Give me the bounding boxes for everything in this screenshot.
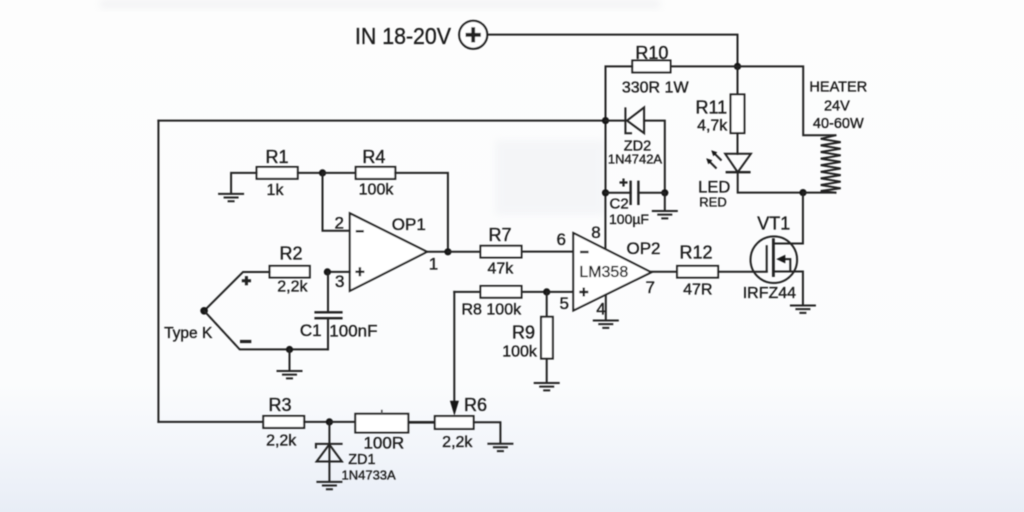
resistor R7 <box>481 246 522 258</box>
capacitor C1 <box>314 272 342 350</box>
wire R11 to LED <box>737 133 739 154</box>
zener ZD2 <box>606 107 665 192</box>
resistor R3 <box>263 416 304 428</box>
wire bottom rail to R3 <box>158 421 263 423</box>
svg-text:2,2k: 2,2k <box>442 434 473 451</box>
svg-text:100k: 100k <box>502 344 538 361</box>
wire R11 top lead <box>737 66 739 94</box>
svg-text:4,7k: 4,7k <box>697 118 728 135</box>
capacitor C2 <box>606 179 665 206</box>
svg-text:R1: R1 <box>265 147 288 167</box>
svg-text:R6: R6 <box>464 395 487 415</box>
resistor R2 <box>270 266 310 278</box>
node I <box>602 189 609 196</box>
wire R4 right feedback drop <box>395 173 448 252</box>
svg-text:47k: 47k <box>488 261 515 278</box>
wire heater branch top <box>738 66 835 135</box>
svg-text:R12: R12 <box>679 243 712 263</box>
svg-text:1k: 1k <box>267 182 285 199</box>
resistor R1 <box>257 167 298 179</box>
ground R6 <box>487 444 513 451</box>
svg-text:R7: R7 <box>488 225 511 245</box>
svg-text:2,2k: 2,2k <box>266 433 297 450</box>
R6 wiper arrowhead <box>450 401 459 416</box>
node B <box>326 418 333 425</box>
ground R1 <box>218 194 244 201</box>
wire node H to node I <box>605 121 607 193</box>
thermocouple minus <box>240 340 251 343</box>
svg-text:R2: R2 <box>279 244 302 264</box>
resistor R9 <box>541 317 553 359</box>
node H <box>602 117 609 124</box>
wire R1 left to ground <box>231 173 257 193</box>
svg-text:1N4742A: 1N4742A <box>608 152 663 167</box>
svg-text:47R: 47R <box>683 282 712 299</box>
svg-text:OP2: OP2 <box>627 239 661 258</box>
svg-text:4: 4 <box>596 300 605 319</box>
wire R1 right to node C <box>298 172 323 174</box>
node K <box>799 189 806 196</box>
node E <box>286 346 293 353</box>
svg-text:RED: RED <box>699 195 726 210</box>
wire node G down to R9 <box>546 292 548 317</box>
thermocouple plus <box>242 276 251 285</box>
svg-text:R3: R3 <box>268 395 291 415</box>
svg-text:C1: C1 <box>300 321 322 340</box>
wire pin2 from node C <box>323 173 350 231</box>
svg-text:2: 2 <box>335 213 344 232</box>
potentiometer R6 <box>435 416 474 429</box>
ground C2 <box>664 193 666 210</box>
svg-text:C2: C2 <box>610 196 629 213</box>
node D <box>324 268 331 275</box>
ground OP2 <box>593 321 619 328</box>
resistor R11 <box>731 94 745 133</box>
wire OP2 output to R12 <box>651 271 677 273</box>
node A <box>734 63 741 70</box>
ground VT1 <box>790 306 816 313</box>
svg-text:40-60W: 40-60W <box>813 116 864 132</box>
wire supply to node A <box>487 35 737 67</box>
wire R6 wiper from R8 <box>453 292 455 403</box>
ground R9 <box>534 383 560 390</box>
wire node A to R10 <box>671 65 738 67</box>
zener ZD1 <box>316 422 343 481</box>
svg-text:100R: 100R <box>363 434 404 453</box>
svg-text:LM358: LM358 <box>579 264 628 281</box>
wire 12V rail top <box>158 120 605 122</box>
wire left rail down <box>157 121 159 422</box>
wire thermocouple lower branch <box>204 311 328 350</box>
svg-text:100k: 100k <box>359 182 395 199</box>
node C <box>319 169 326 176</box>
node J <box>661 189 668 196</box>
svg-text:R11: R11 <box>695 98 727 118</box>
OP2 plus <box>579 288 588 297</box>
wire heater bottom <box>803 192 835 194</box>
node Type K <box>200 307 208 315</box>
wire 100R to R6 <box>408 421 435 424</box>
svg-text:R10: R10 <box>635 43 668 63</box>
wire R12 to gate <box>718 271 767 273</box>
wire node F to R7 <box>448 251 481 253</box>
resistor R12 <box>677 266 718 278</box>
svg-text:R4: R4 <box>362 147 385 167</box>
svg-text:100nF: 100nF <box>329 322 377 341</box>
wire thermocouple upper branch <box>204 272 270 311</box>
svg-text:5: 5 <box>560 294 569 313</box>
svg-text:3: 3 <box>335 272 344 291</box>
LED arrows <box>706 150 721 168</box>
svg-text:100µF: 100µF <box>609 211 649 227</box>
svg-text:IN 18-20V: IN 18-20V <box>355 23 452 49</box>
wire R8 to node G <box>522 291 547 293</box>
svg-text:330R 1W: 330R 1W <box>622 80 690 97</box>
node F <box>444 248 451 255</box>
heater element <box>821 135 841 192</box>
svg-text:ZD1: ZD1 <box>348 452 375 468</box>
wire R3 to node B <box>304 421 329 423</box>
resistor R4 <box>356 167 396 179</box>
wire pin4 to ground <box>605 295 607 320</box>
transistor VT1 <box>751 193 803 305</box>
svg-text:R9: R9 <box>512 323 535 343</box>
svg-text:2,2k: 2,2k <box>277 279 308 296</box>
wire R10 left lead <box>606 66 633 120</box>
wire node C to R4 <box>323 172 356 174</box>
wire R6 right lead <box>474 422 501 442</box>
LED D1 <box>725 154 751 172</box>
svg-text:R8 100k: R8 100k <box>462 302 523 319</box>
svg-text:1: 1 <box>429 255 438 274</box>
svg-text:Type K: Type K <box>164 325 213 342</box>
wire R9 to ground <box>546 359 548 382</box>
wire pin3 <box>327 271 349 273</box>
wire OP1 output <box>427 251 448 253</box>
resistor R8 <box>481 286 522 298</box>
resistor R10 <box>632 61 670 73</box>
wire node G to pin5 <box>547 291 574 293</box>
op-amp OP1 <box>350 213 427 291</box>
OP1 minus <box>356 230 364 232</box>
resistor 100R <box>355 414 408 433</box>
wire R8 left corner <box>454 291 480 293</box>
OP2 minus <box>580 251 589 253</box>
svg-text:6: 6 <box>557 230 566 249</box>
OP1 plus <box>355 267 364 276</box>
svg-text:1N4733A: 1N4733A <box>342 468 397 483</box>
supply terminal + circle <box>459 21 487 49</box>
node G <box>543 288 550 295</box>
svg-text:VT1: VT1 <box>757 213 790 233</box>
svg-text:8: 8 <box>591 223 600 242</box>
op-amp OP2 <box>573 233 651 311</box>
ground ZD1 <box>316 482 342 489</box>
wire R7 to pin6 <box>522 251 574 253</box>
wire LED bottom <box>738 172 803 192</box>
svg-text:24V: 24V <box>824 99 850 115</box>
svg-text:HEATER: HEATER <box>809 80 867 96</box>
svg-text:OP1: OP1 <box>392 215 426 234</box>
svg-text:7: 7 <box>646 278 655 297</box>
wire node B to 100R <box>329 421 355 423</box>
svg-text:IRFZ44: IRFZ44 <box>743 285 796 302</box>
ground thermocouple <box>289 350 291 371</box>
wire pin8 <box>604 193 606 248</box>
